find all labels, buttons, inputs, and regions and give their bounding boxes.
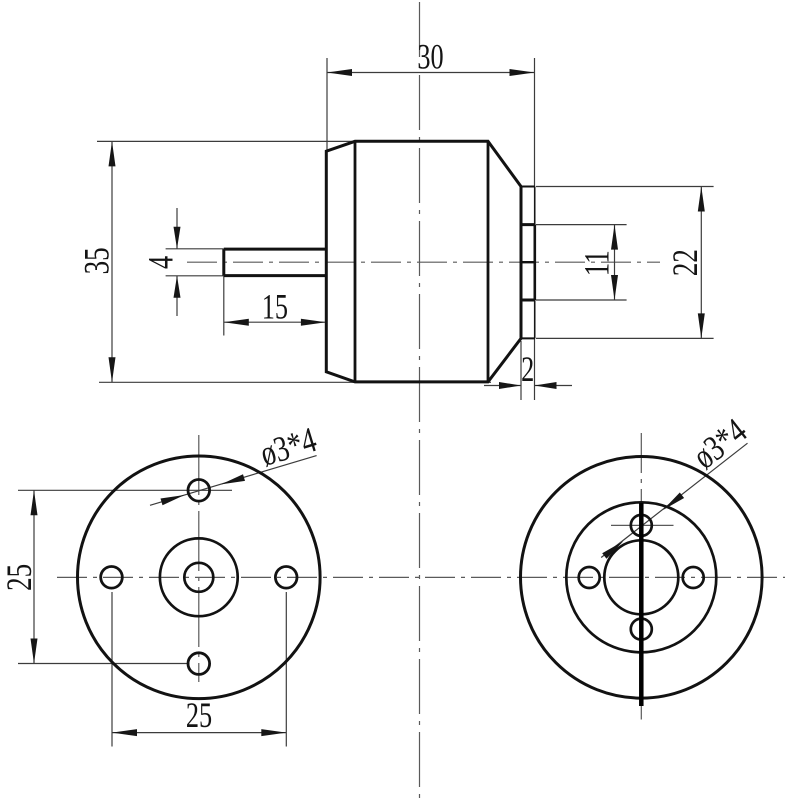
svg-text:35: 35 xyxy=(77,247,117,274)
svg-text:22: 22 xyxy=(665,249,705,276)
svg-text:4: 4 xyxy=(140,256,180,269)
svg-text:2: 2 xyxy=(521,349,534,389)
svg-text:11: 11 xyxy=(577,250,617,276)
svg-text:30: 30 xyxy=(417,37,443,77)
svg-text:25: 25 xyxy=(186,695,212,735)
svg-text:25: 25 xyxy=(0,564,39,591)
svg-text:15: 15 xyxy=(262,287,288,327)
